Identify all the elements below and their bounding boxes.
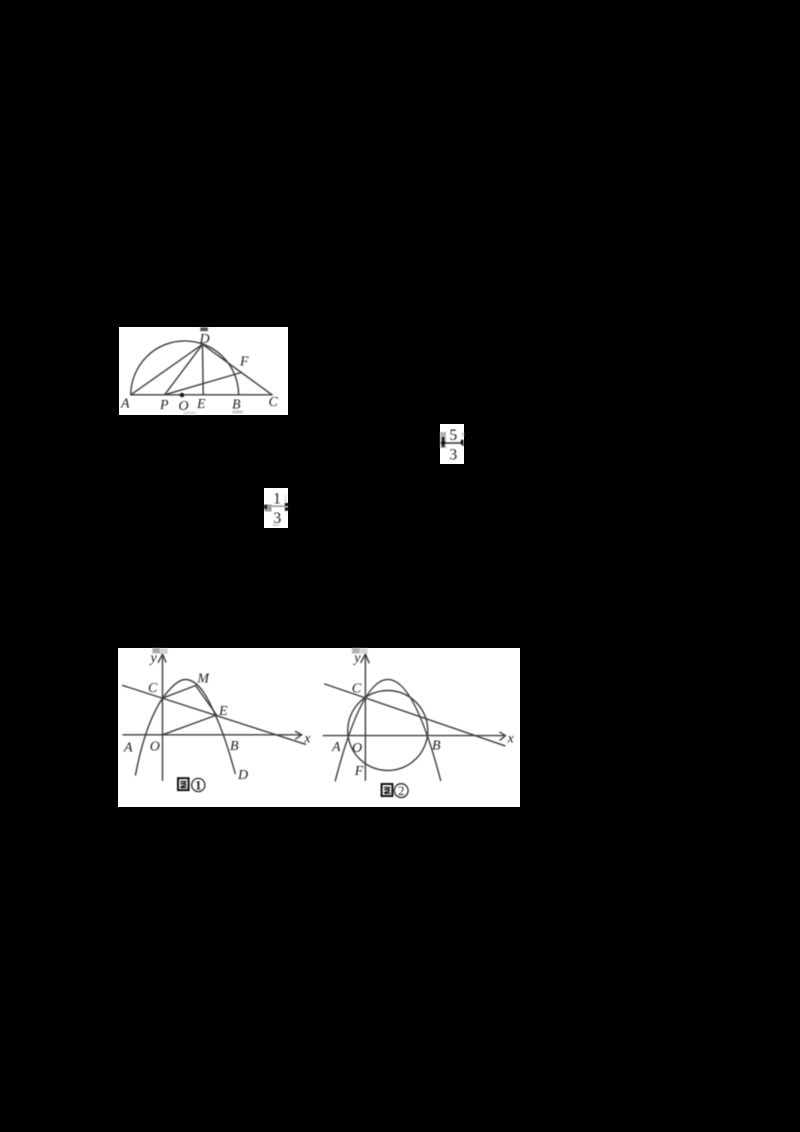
figure box 2: two coordinate diagrams xyxy=(118,648,520,807)
segment P-F xyxy=(165,373,242,395)
svg-text:P: P xyxy=(159,398,169,413)
svg-text:A: A xyxy=(120,397,130,412)
fraction 5/3 box xyxy=(440,424,464,464)
svg-text:F: F xyxy=(354,764,364,779)
svg-text:A: A xyxy=(331,740,341,755)
fraction bar xyxy=(267,505,285,507)
svg-text:A: A xyxy=(123,741,133,756)
comma fragment right xyxy=(461,440,464,447)
segment D-C xyxy=(203,344,273,395)
svg-text:5: 5 xyxy=(449,427,457,444)
chord C-M xyxy=(163,686,196,699)
faint smudges bottom xyxy=(232,410,243,413)
svg-text:x: x xyxy=(507,731,515,746)
fraction 1/3 box xyxy=(264,488,288,528)
circle through A C B F xyxy=(348,691,428,771)
labels 2 xyxy=(331,651,515,779)
plus sign fragment left xyxy=(441,442,446,444)
long line through C and E xyxy=(123,685,306,744)
svg-text:D: D xyxy=(237,768,248,783)
svg-text:O: O xyxy=(179,399,189,414)
center dot O xyxy=(180,393,185,398)
parabola 1 xyxy=(136,680,236,776)
svg-text:O: O xyxy=(352,741,362,756)
svg-text:y: y xyxy=(149,651,158,666)
fraction bar xyxy=(446,442,462,444)
black marks right edge xyxy=(285,503,289,506)
svg-text:y: y xyxy=(352,651,361,666)
svg-text:3: 3 xyxy=(273,510,281,527)
svg-text:E: E xyxy=(196,397,206,412)
svg-text:3: 3 xyxy=(449,447,457,464)
svg-text:D: D xyxy=(199,332,210,347)
svg-text:B: B xyxy=(432,739,441,754)
caption 2: tu glyph box xyxy=(382,784,409,799)
smudge top 2 xyxy=(352,648,360,654)
baseline A to C xyxy=(131,394,272,396)
gray square left xyxy=(265,505,272,512)
svg-text:C: C xyxy=(352,682,362,697)
black mark left edge xyxy=(264,505,267,509)
smudge above D xyxy=(200,327,208,331)
svg-text:E: E xyxy=(218,704,228,719)
parabola 2 xyxy=(335,679,441,781)
labels 1 xyxy=(123,651,311,783)
segment A-D xyxy=(131,344,203,395)
svg-text:O: O xyxy=(150,740,160,755)
svg-text:x: x xyxy=(303,732,311,747)
svg-text:C: C xyxy=(148,681,158,696)
svg-text:B: B xyxy=(232,398,241,413)
long line through C xyxy=(325,684,505,746)
svg-text:B: B xyxy=(230,739,239,754)
svg-text:1: 1 xyxy=(195,779,201,793)
labels xyxy=(120,332,279,414)
caption 1: tu glyph box xyxy=(178,778,205,792)
svg-text:M: M xyxy=(196,672,210,687)
svg-text:F: F xyxy=(239,355,249,370)
segment O-E xyxy=(163,715,217,735)
x axis 1 xyxy=(123,734,301,736)
y axis 2 xyxy=(364,655,366,781)
x axis 2 xyxy=(323,735,504,737)
semicircle on AB xyxy=(131,341,239,395)
gray patch left xyxy=(440,432,446,448)
segment D-E vertical xyxy=(202,344,205,395)
smudge top 1 xyxy=(152,648,160,653)
y axis 1 xyxy=(162,655,164,781)
figure box 1: semicircle geometry APOEBC with D,F xyxy=(119,327,288,415)
svg-text:1: 1 xyxy=(273,491,281,508)
svg-text:C: C xyxy=(269,395,279,410)
segment P-D xyxy=(165,344,203,395)
svg-text:2: 2 xyxy=(398,784,404,798)
chord M-E xyxy=(196,686,217,716)
